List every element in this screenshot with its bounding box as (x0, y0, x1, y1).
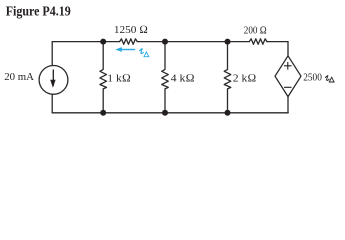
svg-text:1 kΩ: 1 kΩ (107, 73, 131, 85)
svg-text:2 kΩ: 2 kΩ (233, 73, 256, 85)
svg-text:200 Ω: 200 Ω (244, 26, 267, 37)
svg-text:4 kΩ: 4 kΩ (171, 73, 195, 85)
svg-text:1250 Ω: 1250 Ω (114, 24, 148, 36)
svg-text:2500: 2500 (303, 72, 322, 83)
svg-text:20 mA: 20 mA (4, 71, 34, 83)
svg-text:Figure P4.19: Figure P4.19 (6, 4, 71, 19)
